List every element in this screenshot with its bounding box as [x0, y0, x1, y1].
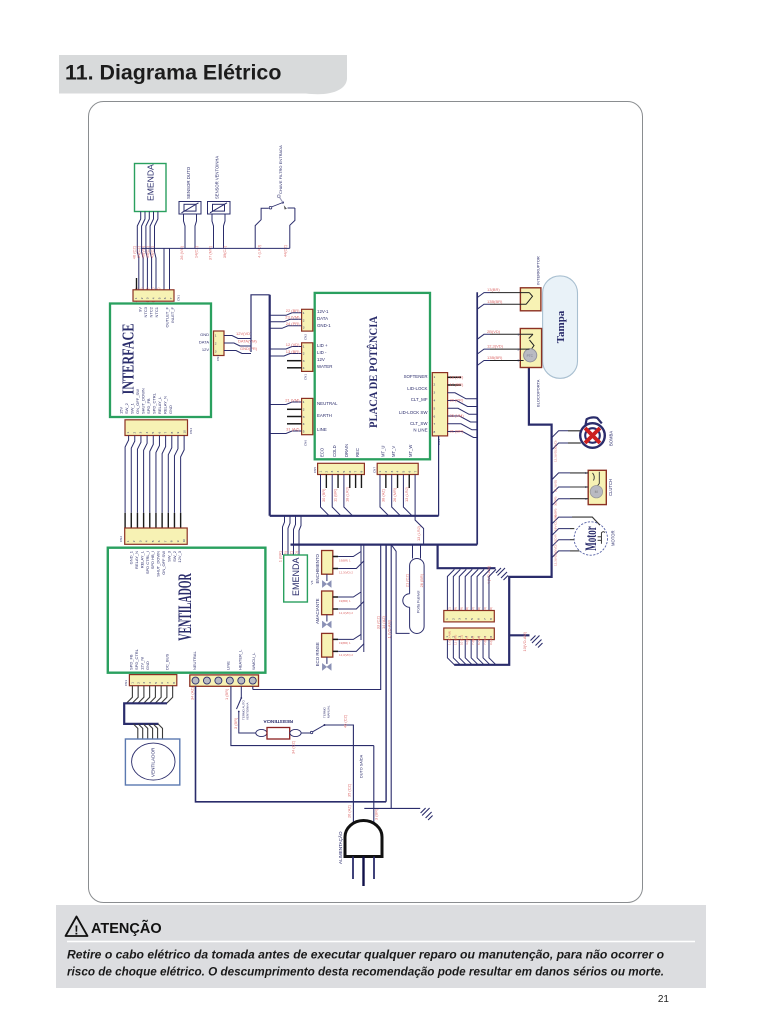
svg-text:8: 8 [170, 432, 174, 434]
svg-text:13B(BR): 13B(BR) [487, 299, 503, 304]
svg-text:4: 4 [303, 422, 305, 426]
svg-text:5: 5 [303, 429, 305, 433]
svg-text:13B(BR): 13B(BR) [487, 355, 503, 360]
svg-text:1: 1 [303, 400, 305, 404]
bus A horizontal [270, 515, 439, 517]
svg-text:12V_3: 12V_3 [177, 550, 182, 562]
valve bus verticals [360, 545, 362, 640]
wires CN3 placa right [448, 376, 461, 378]
svg-text:SPD CTRL_I: SPD CTRL_I [145, 551, 150, 574]
svg-text:26 (VM): 26 (VM) [179, 245, 184, 260]
alimentacao plug P1 [345, 821, 382, 886]
wire terminal4 neutral run [231, 686, 374, 745]
svg-text:LID +: LID + [317, 343, 328, 348]
svg-text:1 (BR): 1 (BR) [224, 688, 229, 700]
svg-text:6: 6 [157, 432, 161, 434]
svg-text:14(CZ): 14(CZ) [194, 245, 199, 258]
svg-text:1: 1 [319, 471, 323, 473]
svg-text:PLACA DE POTÊNCIA: PLACA DE POTÊNCIA [368, 315, 381, 428]
svg-text:7: 7 [434, 422, 436, 426]
svg-text:6: 6 [407, 471, 411, 473]
sensor ventoinha legs [212, 214, 214, 248]
svg-text:6: 6 [163, 297, 167, 299]
svg-text:Motor: Motor [583, 526, 600, 551]
svg-text:9: 9 [176, 540, 180, 542]
pins and wires CN5 [321, 475, 330, 516]
clutch wires [552, 473, 570, 480]
svg-text:2: 2 [140, 297, 144, 299]
svg-text:1 (VD-AM): 1 (VD-AM) [386, 619, 391, 638]
svg-text:1: 1 [215, 333, 217, 337]
svg-text:CN2: CN2 [304, 334, 308, 340]
svg-text:4: 4 [336, 471, 340, 473]
svg-text:3: 3 [146, 297, 150, 299]
svg-text:ON_OFF SW: ON_OFF SW [161, 551, 166, 575]
svg-text:LINE: LINE [317, 427, 327, 432]
svg-text:SPD_FB: SPD_FB [129, 654, 134, 670]
svg-text:12 (BR): 12 (BR) [453, 635, 457, 645]
svg-text:4: 4 [303, 366, 305, 370]
svg-text:21 (CZ): 21 (CZ) [405, 573, 410, 587]
svg-text:13(BR): 13(BR) [487, 287, 500, 292]
valvula ECO RINSE [322, 633, 333, 670]
svg-text:4: 4 [148, 682, 152, 684]
svg-text:LID-LOCK SW: LID-LOCK SW [399, 410, 428, 415]
ground branch CN block [509, 634, 529, 636]
svg-text:9 (LR): 9 (LR) [489, 637, 493, 645]
svg-text:CN3: CN3 [124, 680, 128, 686]
svg-text:Porta Fusível: Porta Fusível [416, 590, 420, 613]
connector CN2 ventilador top [119, 528, 187, 544]
svg-text:7: 7 [354, 471, 358, 473]
svg-text:3: 3 [139, 432, 143, 434]
svg-text:13 (BR): 13 (BR) [286, 349, 300, 354]
svg-text:5: 5 [157, 297, 161, 299]
interruptor S4 [520, 288, 541, 311]
svg-text:CLUTCH: CLUTCH [608, 479, 613, 496]
svg-text:CLT_MF: CLT_MF [411, 397, 428, 402]
svg-text:7: 7 [164, 432, 168, 434]
connector CN1 interface top [136, 278, 138, 290]
svg-text:2: 2 [303, 352, 305, 356]
svg-text:CN1: CN1 [304, 374, 308, 380]
wires out of connector CNB [447, 640, 454, 665]
svg-text:RELAY_L: RELAY_L [139, 550, 144, 568]
connector CN2 placa [302, 309, 313, 340]
svg-text:INLET_F: INLET_F [170, 306, 175, 323]
svg-text:MT_V: MT_V [391, 446, 396, 457]
svg-text:risco de choque elétrico. O de: risco de choque elétrico. O descumprimen… [67, 966, 664, 979]
svg-text:SW_1: SW_1 [130, 402, 135, 414]
svg-text:3: 3 [330, 471, 334, 473]
svg-text:ENCHIMENTO: ENCHIMENTO [315, 553, 320, 583]
blocoporta K1 [520, 329, 541, 368]
svg-text:CN7: CN7 [373, 467, 377, 473]
wires CN3 interface to harness [224, 336, 251, 339]
svg-text:2: 2 [132, 432, 136, 434]
connector CN3 interface [214, 331, 225, 361]
svg-text:NTC2: NTC2 [149, 306, 154, 317]
svg-text:7 (BR): 7 (BR) [471, 636, 475, 645]
svg-text:5: 5 [151, 432, 155, 434]
svg-text:7 (MR): 7 (MR) [483, 636, 487, 645]
svg-text:2: 2 [324, 471, 328, 473]
porta fusivel F1 [412, 545, 414, 559]
svg-text:EMENDA: EMENDA [146, 164, 156, 201]
svg-text:12,3(VD) 2: 12,3(VD) 2 [339, 570, 353, 574]
svg-text:SHUT_DOWN: SHUT_DOWN [156, 551, 161, 577]
svg-text:35 (CZ): 35 (CZ) [347, 783, 352, 797]
svg-text:8: 8 [489, 618, 493, 620]
svg-text:Retire o cabo elétrico da toma: Retire o cabo elétrico da tomada antes d… [67, 949, 664, 962]
harness wire interface to placa [251, 295, 270, 352]
svg-text:N LINE: N LINE [413, 428, 427, 433]
svg-text:SPD_CTRL: SPD_CTRL [152, 392, 157, 414]
svg-text:23 (VM): 23 (VM) [285, 315, 300, 320]
thermostato manual S3 [301, 732, 310, 734]
svg-text:2: 2 [303, 318, 305, 322]
ground G1 [496, 568, 508, 580]
ventilador board U2 [108, 548, 266, 673]
svg-text:1: 1 [378, 471, 382, 473]
svg-text:2B(VD): 2B(VD) [487, 329, 501, 334]
connector CNB [444, 628, 495, 640]
svg-text:4 (PR): 4 (PR) [465, 636, 469, 645]
svg-text:17 (BR): 17 (BR) [450, 382, 464, 387]
svg-text:10 (CZ): 10 (CZ) [459, 635, 463, 645]
wires CN2 placa to harness [270, 313, 302, 316]
sensor bus wire [141, 247, 290, 249]
svg-text:3: 3 [138, 540, 142, 542]
svg-text:NTC1: NTC1 [154, 306, 159, 317]
wires from emenda E1 to connector CN1 [137, 212, 140, 290]
svg-text:DC_BUS: DC_BUS [165, 653, 170, 670]
connector CN4 interface bottom [125, 420, 193, 436]
svg-text:SW_2: SW_2 [172, 550, 177, 562]
svg-text:13 (LRJ): 13 (LRJ) [416, 525, 421, 541]
svg-text:22 (BR): 22 (BR) [286, 308, 300, 313]
svg-text:VENTOINHA: VENTOINHA [246, 703, 250, 720]
svg-text:31 (AZ): 31 (AZ) [286, 427, 300, 432]
svg-text:12,3(VD) 2: 12,3(VD) 2 [339, 653, 353, 657]
svg-text:ALIMENTAÇÃO: ALIMENTAÇÃO [337, 831, 343, 864]
svg-text:11 (BR): 11 (BR) [333, 488, 338, 502]
svg-text:2: 2 [384, 471, 388, 473]
svg-text:SENSOR VENTOINHA: SENSOR VENTOINHA [215, 156, 220, 199]
svg-text:5: 5 [342, 471, 346, 473]
svg-text:1: 1 [303, 345, 305, 349]
svg-text:GND: GND [200, 332, 209, 337]
svg-text:30 (PR): 30 (PR) [450, 398, 464, 403]
emenda E1 box [135, 164, 167, 212]
svg-text:1: 1 [445, 618, 449, 620]
svg-text:CN3: CN3 [216, 355, 220, 361]
svg-text:3: 3 [303, 359, 305, 363]
valvula AMACIANTE [322, 591, 333, 628]
wires CN3 ventilador pin leads [127, 686, 133, 703]
svg-text:12V: 12V [317, 357, 325, 362]
wire right prong drop [373, 746, 375, 823]
svg-text:6: 6 [434, 414, 436, 418]
svg-text:43(CZ): 43(CZ) [149, 245, 154, 258]
svg-text:4: 4 [434, 398, 436, 402]
svg-text:BOMBA: BOMBA [609, 431, 614, 446]
bus drops to CN1 [163, 248, 165, 289]
svg-text:DATA(VM): DATA(VM) [238, 339, 257, 344]
svg-text:8: 8 [434, 430, 436, 434]
svg-text:12V-1: 12V-1 [317, 309, 329, 314]
pin stubs above CN2 ventilador [124, 513, 126, 528]
svg-text:30(VD): 30(VD) [554, 440, 558, 450]
svg-text:8: 8 [359, 471, 363, 473]
svg-text:4: 4 [396, 471, 400, 473]
svg-text:2: 2 [136, 682, 140, 684]
svg-text:ECO RINSE: ECO RINSE [315, 642, 320, 666]
svg-text:15V: 15V [119, 407, 124, 414]
svg-text:34 (AZ): 34 (AZ) [190, 686, 195, 700]
svg-text:3: 3 [434, 391, 436, 395]
svg-text:26 (MR): 26 (MR) [392, 487, 397, 502]
svg-text:GND: GND [168, 405, 173, 414]
interface board U1 [110, 304, 211, 418]
svg-text:EARTH: EARTH [317, 413, 332, 418]
clutch K2 [588, 470, 606, 504]
svg-text:30(PR): 30(PR) [554, 496, 558, 506]
svg-text:GND_1: GND_1 [129, 550, 134, 564]
svg-text:2: 2 [451, 618, 455, 620]
svg-text:25 (VM): 25 (VM) [450, 413, 465, 418]
sensor ventoinha RT2 [208, 202, 231, 215]
terminal strip X1 [190, 675, 259, 686]
svg-text:1: 1 [126, 432, 130, 434]
svg-text:LID-LOCK: LID-LOCK [407, 386, 427, 391]
svg-text:30(VD): 30(VD) [554, 544, 558, 554]
svg-text:3: 3 [458, 618, 462, 620]
svg-text:38 (AZ): 38 (AZ) [381, 488, 386, 502]
svg-text:3 (BR): 3 (BR) [233, 717, 238, 729]
sensor duto legs [184, 214, 186, 248]
placa de potencia board U3 [315, 293, 430, 459]
svg-text:PTC: PTC [527, 354, 534, 358]
svg-text:2: 2 [215, 341, 217, 345]
svg-text:34 (CZ): 34 (CZ) [291, 740, 296, 754]
svg-text:3 (BR): 3 (BR) [374, 808, 379, 820]
svg-text:3: 3 [303, 415, 305, 419]
svg-text:M: M [595, 490, 598, 494]
bus B ground branch [438, 545, 496, 569]
svg-text:12 (VD): 12 (VD) [286, 342, 300, 347]
svg-text:12V(VD): 12V(VD) [236, 331, 252, 336]
svg-text:19(BR) 1: 19(BR) 1 [339, 599, 351, 603]
svg-text:MOTOR: MOTOR [611, 530, 616, 546]
svg-text:1 (VD-AM): 1 (VD-AM) [447, 631, 451, 645]
svg-text:2: 2 [303, 407, 305, 411]
valvula ENCHIMENTO [322, 551, 333, 588]
svg-text:6: 6 [477, 618, 481, 620]
svg-text:NEUTRAL: NEUTRAL [317, 401, 338, 406]
warning separator [67, 941, 695, 943]
svg-text:DATA: DATA [199, 340, 209, 345]
svg-text:10: 10 [182, 430, 186, 434]
connector CN3 placa right [432, 373, 447, 445]
bomba wires [552, 431, 568, 438]
svg-text:1 (BR): 1 (BR) [277, 550, 282, 562]
svg-text:CN5: CN5 [313, 467, 317, 473]
svg-text:CN4: CN4 [189, 428, 193, 434]
svg-text:LINE: LINE [226, 661, 231, 670]
warning section background [56, 905, 706, 988]
sensor duto RT1 [179, 202, 201, 215]
svg-text:SPD_CTRL: SPD_CTRL [134, 648, 139, 670]
svg-text:3: 3 [142, 682, 146, 684]
svg-text:12V: 12V [202, 347, 209, 352]
svg-text:26 (BR): 26 (BR) [419, 573, 424, 587]
wires bus A to emenda E2 [283, 516, 285, 555]
svg-text:COLD: COLD [332, 445, 337, 457]
svg-text:4 (LRJ): 4 (LRJ) [257, 244, 262, 257]
svg-text:3: 3 [215, 350, 217, 354]
svg-text:4: 4 [152, 297, 156, 299]
valvula ECO RINSE wires [333, 639, 338, 651]
svg-text:5: 5 [154, 682, 158, 684]
ground G3 near plug [421, 808, 433, 820]
bus A right riser [438, 436, 440, 516]
svg-text:6: 6 [157, 540, 161, 542]
svg-text:RESISTENCIA: RESISTENCIA [263, 719, 293, 724]
schematic frame [89, 102, 643, 903]
svg-text:3: 3 [303, 326, 305, 330]
svg-text:SPD_FB: SPD_FB [146, 398, 151, 414]
svg-text:CN2: CN2 [119, 536, 123, 542]
svg-text:VENTILADOR: VENTILADOR [175, 573, 196, 641]
wires CN6 placa [270, 402, 302, 405]
svg-text:HEATER_L: HEATER_L [238, 649, 243, 670]
svg-text:6: 6 [348, 471, 352, 473]
svg-text:ECO: ECO [320, 447, 325, 457]
svg-text:7: 7 [166, 682, 170, 684]
svg-text:31D R: 31D R [554, 534, 558, 543]
svg-text:18 (LRJ): 18 (LRJ) [344, 486, 349, 502]
svg-text:5: 5 [151, 540, 155, 542]
wires into connector CNA [447, 569, 454, 610]
svg-text:19(BR) 1: 19(BR) 1 [339, 558, 351, 562]
harness motor vertical [454, 367, 551, 665]
svg-text:9: 9 [176, 432, 180, 434]
interruptor wires [477, 293, 490, 298]
motor wires [552, 517, 572, 524]
svg-text:12,3(VD): 12,3(VD) [554, 480, 558, 492]
pins and wires CN7 [380, 475, 389, 516]
svg-text:46 (CZ): 46 (CZ) [343, 714, 348, 728]
harness vertical right of placa [476, 292, 478, 544]
emenda E2 box [284, 555, 308, 602]
svg-text:OUTLET_F: OUTLET_F [165, 306, 170, 327]
bomba M1 [580, 417, 605, 447]
ventilador fan M3 [125, 739, 179, 785]
svg-text:INTERFACE: INTERFACE [120, 323, 138, 394]
svg-text:WMCU_L: WMCU_L [251, 652, 256, 670]
svg-text:30 (BR): 30 (BR) [321, 488, 326, 502]
svg-text:DRAIN: DRAIN [344, 444, 349, 457]
svg-text:4: 4 [145, 432, 149, 434]
svg-text:SHUT_DOWN: SHUT_DOWN [141, 388, 146, 414]
svg-text:GND-1: GND-1 [317, 323, 331, 328]
svg-text:2: 2 [434, 383, 436, 387]
thermostat auto ventoinha S2 [240, 686, 242, 698]
svg-text:7: 7 [483, 618, 487, 620]
wire resistencia out to plug [330, 725, 353, 823]
svg-text:13 (LRJ): 13 (LRJ) [404, 486, 409, 502]
svg-text:44(CZ): 44(CZ) [283, 244, 288, 257]
svg-text:GND: GND [145, 661, 150, 670]
svg-text:MT_U: MT_U [381, 446, 386, 457]
svg-text:SW_3: SW_3 [166, 550, 171, 562]
connector CN6 placa [302, 398, 313, 446]
svg-text:EMENDA: EMENDA [291, 557, 301, 596]
svg-text:RELAY_N: RELAY_N [134, 551, 139, 569]
wires bus B drop group [253, 545, 381, 690]
svg-text:26 (AZ): 26 (AZ) [347, 804, 352, 818]
svg-text:31 (BR): 31 (BR) [450, 429, 464, 434]
svg-text:7: 7 [413, 471, 417, 473]
svg-text:AMACIANTE: AMACIANTE [315, 598, 320, 624]
svg-text:REC: REC [355, 448, 360, 457]
svg-text:19(BR) 1: 19(BR) 1 [339, 641, 351, 645]
svg-text:24 (PR): 24 (PR) [286, 321, 300, 326]
svg-text:RELAY_N: RELAY_N [163, 396, 168, 414]
svg-text:11. Diagrama Elétrico: 11. Diagrama Elétrico [65, 61, 281, 85]
connector CN3 ventilador [124, 675, 177, 686]
svg-text:SW_2: SW_2 [124, 402, 129, 414]
wire terminal1 long run to plug area [196, 686, 387, 802]
connector CNA [444, 611, 495, 622]
wires CN4 to CN2 ventilador [125, 436, 129, 513]
svg-text:1: 1 [130, 682, 134, 684]
valvula AMACIANTE wires [333, 597, 338, 609]
svg-text:2: 2 [132, 540, 136, 542]
svg-text:CN1: CN1 [177, 295, 181, 301]
bus B horizontal [291, 543, 478, 545]
svg-text:GND(PR): GND(PR) [240, 346, 258, 351]
svg-text:!: ! [74, 923, 78, 938]
blocoporta wires [477, 334, 490, 339]
svg-text:8: 8 [172, 682, 176, 684]
svg-text:12,3(VD): 12,3(VD) [554, 450, 558, 462]
svg-text:4: 4 [464, 618, 468, 620]
svg-text:9V: 9V [138, 307, 143, 312]
connector CN7 placa bottom [373, 463, 419, 474]
svg-text:LID -: LID - [317, 350, 327, 355]
chave filtro entrada S1 [255, 208, 269, 248]
svg-text:DUTO SAÍDA: DUTO SAÍDA [360, 754, 364, 778]
connector CN5 placa bottom [313, 463, 364, 474]
svg-text:1: 1 [434, 375, 436, 379]
svg-text:12V_NI: 12V_NI [140, 657, 145, 670]
svg-text:4: 4 [145, 540, 149, 542]
wires CN1 placa [270, 347, 302, 350]
svg-text:BLOCOPORTA: BLOCOPORTA [536, 379, 541, 407]
svg-text:CN6: CN6 [304, 440, 308, 446]
main harness vertical left of placa [269, 295, 271, 516]
svg-text:12,3(VD): 12,3(VD) [487, 344, 504, 349]
valvula ENCHIMENTO wires [333, 557, 338, 569]
svg-text:10(VD-AM): 10(VD-AM) [522, 631, 527, 651]
svg-text:39(CZ): 39(CZ) [222, 245, 227, 258]
svg-text:7: 7 [169, 297, 173, 299]
svg-text:MANUAL: MANUAL [327, 705, 331, 718]
svg-text:5: 5 [470, 618, 474, 620]
svg-text:SENSOR DUTO: SENSOR DUTO [186, 166, 191, 199]
